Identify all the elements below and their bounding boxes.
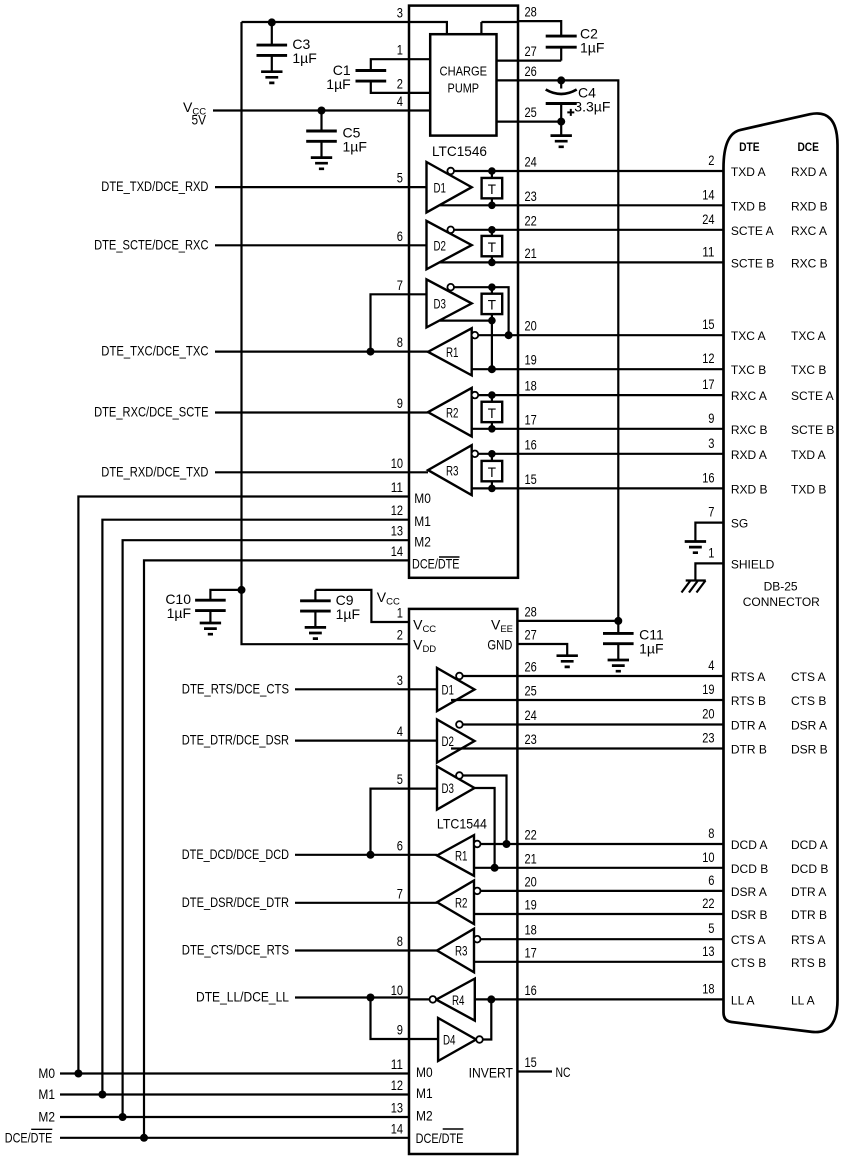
svg-text:RXC A: RXC A (791, 224, 827, 238)
receiver R1 U1 (428, 328, 472, 375)
svg-text:27: 27 (525, 43, 537, 59)
svg-text:M1: M1 (414, 513, 431, 529)
wire R2 output pin9 (409, 411, 428, 413)
svg-text:GND: GND (487, 637, 512, 653)
svg-text:TXD A: TXD A (731, 165, 766, 179)
wire pin25 to C4 minus (518, 120, 561, 122)
svg-text:DTR B: DTR B (731, 743, 767, 757)
wire D4 output to R4 input (483, 999, 492, 1039)
wire U2 R1 input pin21 (474, 867, 517, 869)
junction pin6/pin5 riser (367, 851, 375, 859)
svg-text:24: 24 (525, 154, 537, 170)
capacitor C10 1uF (210, 590, 241, 600)
wire U2 to DB25 row y=748.5 (517, 747, 723, 749)
svg-text:R3: R3 (446, 462, 459, 478)
wire pin26 internal (497, 79, 519, 81)
svg-text:25: 25 (525, 683, 537, 699)
termination T3 (482, 283, 503, 324)
wire SG pin7 (695, 523, 723, 541)
svg-text:5: 5 (397, 771, 403, 787)
wire U1 to DB25 row y=229.8 (518, 229, 724, 231)
wire U2 to DB25 row y=999.4 (517, 998, 723, 1000)
termination T4 (482, 391, 503, 432)
ground at SG (685, 542, 706, 553)
wire VEE rail pin26 to chip2 pin28 (518, 80, 618, 621)
svg-text:21: 21 (525, 850, 537, 866)
svg-text:14: 14 (702, 186, 714, 202)
wire D3 input pin7 internal (409, 293, 427, 295)
svg-text:13: 13 (391, 523, 403, 539)
svg-text:LTC1544: LTC1544 (437, 816, 487, 832)
svg-text:M0: M0 (416, 1064, 433, 1080)
driver D2 U2 (437, 720, 475, 763)
junction M2 (119, 1113, 127, 1121)
wire U2 R3 output pin8 (409, 949, 437, 951)
wire mode bus M2 (60, 540, 409, 1117)
svg-text:DTE: DTE (739, 140, 760, 154)
svg-text:7: 7 (708, 504, 714, 520)
svg-text:R1: R1 (446, 344, 459, 360)
wire U1 to DB25 row y=369.2 (518, 368, 724, 370)
svg-text:5: 5 (397, 170, 403, 186)
svg-text:1: 1 (397, 605, 403, 621)
receiver R2 U1 (428, 388, 472, 437)
wire R2 input pin17 (472, 428, 518, 430)
junction pin3/C3 (268, 18, 276, 26)
svg-text:1: 1 (397, 42, 403, 58)
svg-text:2: 2 (397, 627, 403, 643)
svg-text:DTE_RTS/DCE_CTS: DTE_RTS/DCE_CTS (182, 680, 289, 696)
wire VCC to U2 pin1 (315, 590, 409, 622)
svg-text:DTR A: DTR A (791, 885, 826, 899)
capacitor C3 1uF (257, 22, 317, 83)
svg-text:D2: D2 (434, 237, 447, 253)
svg-text:1µF: 1µF (580, 40, 604, 56)
svg-text:8: 8 (397, 933, 403, 949)
wire U1 to DB25 row y=171 (518, 170, 724, 172)
wire pin25 internal (497, 120, 519, 122)
wire U1 to DB25 row y=488.4 (518, 487, 724, 489)
termination T1 (482, 167, 503, 209)
svg-text:M2: M2 (38, 1109, 55, 1125)
svg-text:1µF: 1µF (639, 640, 663, 656)
svg-text:CTS B: CTS B (731, 956, 766, 970)
wire DTE_RXD/DCE_TXD (215, 471, 409, 473)
svg-text:D3: D3 (434, 296, 447, 312)
svg-text:9: 9 (708, 410, 714, 426)
svg-text:6: 6 (397, 837, 403, 853)
svg-text:RTS B: RTS B (791, 956, 826, 970)
svg-text:3.3µF: 3.3µF (574, 99, 610, 115)
svg-text:12: 12 (391, 1077, 403, 1093)
svg-text:15: 15 (702, 316, 714, 332)
wire U2 to DB25 row y=844 (517, 843, 723, 845)
wire D2 output pin21 (440, 261, 518, 263)
svg-text:7: 7 (397, 885, 403, 901)
svg-text:M1: M1 (416, 1085, 433, 1101)
svg-text:19: 19 (525, 897, 537, 913)
wire pin27 internal (497, 59, 519, 61)
wire D1 output pin23 (440, 204, 518, 206)
wire U2 R4 input pin16 (475, 998, 518, 1000)
ground at U2 GND (557, 656, 578, 667)
wire U2 to DB25 row y=867.8 (517, 867, 723, 869)
junction VCC/C5 (318, 107, 326, 115)
svg-text:R3: R3 (455, 943, 468, 959)
svg-text:21: 21 (525, 245, 537, 261)
wire U2 D3 output to pin22 row (463, 776, 507, 845)
svg-text:11: 11 (702, 243, 714, 259)
wire DTE_TXC/DCE_TXC pin8 (215, 351, 409, 353)
svg-text:8: 8 (397, 334, 403, 350)
svg-text:DTE_TXC/DCE_TXC: DTE_TXC/DCE_TXC (101, 343, 208, 359)
svg-text:20: 20 (702, 706, 714, 722)
svg-text:24: 24 (525, 707, 537, 723)
driver D1 U1 (427, 162, 472, 212)
svg-text:RTS A: RTS A (791, 933, 825, 947)
svg-text:RXD B: RXD B (791, 199, 828, 213)
wire pin2 internal (409, 92, 430, 94)
svg-text:16: 16 (525, 436, 537, 452)
termination T5 (482, 450, 503, 492)
capacitor C1 1uF (371, 59, 409, 70)
wire U2 to DB25 row y=939.2 (517, 938, 723, 940)
wire DTE_LL pin10 (295, 996, 409, 998)
svg-text:4: 4 (397, 723, 403, 739)
wire SHIELD pin1 (695, 563, 723, 580)
svg-text:INVERT: INVERT (469, 1065, 514, 1081)
wire U2 R2 input pin19 (474, 913, 517, 915)
svg-text:22: 22 (525, 212, 537, 228)
wire U1 to DB25 row y=453.8 (518, 453, 724, 455)
wire mode bus DCE/DTE (60, 560, 409, 1137)
svg-text:CTS B: CTS B (791, 694, 826, 708)
capacitor C5 1uF (306, 111, 367, 169)
wire pin28 to charge pump internal (481, 21, 518, 23)
svg-text:TXC B: TXC B (791, 363, 826, 377)
junction VDD/C10 (238, 586, 246, 594)
wire R3 input pin16 (478, 453, 518, 455)
wire R1 input pin19 (472, 368, 518, 370)
wire DTE_RTS/DCE_CTS (295, 688, 409, 690)
wire U2 D2 output pin23 (451, 747, 517, 749)
svg-text:T: T (488, 240, 496, 255)
svg-text:13: 13 (702, 943, 714, 959)
wire mode bus M1 (60, 520, 409, 1095)
svg-text:3: 3 (708, 435, 714, 451)
svg-text:TXD B: TXD B (731, 199, 766, 213)
wire U2 R1 input pin22 (480, 843, 517, 845)
wire T3 to pin19 row (491, 321, 493, 370)
junction D3/R1 pin20 (505, 331, 513, 339)
svg-text:1µF: 1µF (343, 139, 367, 155)
svg-text:DTE_LL/DCE_LL: DTE_LL/DCE_LL (196, 989, 289, 1005)
svg-text:LTC1546: LTC1546 (432, 143, 487, 159)
driver D3 U2 (437, 767, 475, 810)
svg-text:DTE_RXC/DCE_SCTE: DTE_RXC/DCE_SCTE (94, 404, 208, 420)
svg-text:LL A: LL A (791, 993, 815, 1007)
svg-text:10: 10 (391, 455, 403, 471)
svg-text:6: 6 (708, 872, 714, 888)
wire DTE_CTS/DCE_RTS (295, 949, 409, 951)
IC U2 LTC1544 outline (409, 609, 517, 1154)
svg-text:10: 10 (702, 849, 714, 865)
wire U2 R1 output pin6 (409, 854, 437, 856)
svg-text:10: 10 (391, 982, 403, 998)
svg-text:DSR A: DSR A (731, 885, 767, 899)
svg-text:DTE_DSR/DCE_DTR: DTE_DSR/DCE_DTR (182, 894, 289, 910)
svg-text:DTR A: DTR A (731, 719, 766, 733)
junction R4/D4 (487, 995, 495, 1003)
svg-text:3: 3 (397, 5, 403, 21)
svg-text:11: 11 (391, 1056, 403, 1072)
svg-text:D2: D2 (442, 733, 455, 749)
svg-text:DSR B: DSR B (731, 908, 768, 922)
wire U2 R2 input pin20 (480, 890, 517, 892)
svg-text:DTE_SCTE/DCE_RXC: DTE_SCTE/DCE_RXC (94, 236, 208, 252)
wire U2 D4 input pin9 (409, 1038, 438, 1040)
wire mode bus M0 (60, 497, 409, 1074)
svg-text:8: 8 (708, 825, 714, 841)
svg-text:CHARGE: CHARGE (440, 64, 488, 78)
svg-text:DCE/DTE: DCE/DTE (412, 556, 460, 572)
ground at C4 (551, 136, 572, 147)
wire U2 D1 input pin3 (409, 688, 437, 690)
svg-text:20: 20 (525, 873, 537, 889)
wire U2 D3 input pin5 (409, 787, 437, 789)
wire D2 output pin22 (454, 229, 518, 231)
wire R1 input pin20 (478, 334, 518, 336)
receiver R1 U2 (437, 835, 474, 876)
svg-text:M0: M0 (38, 1065, 55, 1081)
svg-text:D1: D1 (434, 179, 447, 195)
wire R3 output pin10 (409, 471, 428, 473)
capacitor C4 3.3uF polarized (560, 80, 562, 88)
svg-text:RXC B: RXC B (791, 256, 828, 270)
svg-text:M0: M0 (414, 490, 431, 506)
svg-text:12: 12 (391, 502, 403, 518)
svg-text:25: 25 (525, 104, 537, 120)
svg-text:DTE_DTR/DCE_DSR: DTE_DTR/DCE_DSR (182, 732, 289, 748)
svg-text:19: 19 (702, 681, 714, 697)
junction pin8/pin7 riser (367, 348, 375, 356)
wire DTE_SCTE/DCE_RXC (215, 244, 409, 246)
svg-text:14: 14 (391, 543, 403, 559)
svg-text:DTE_DCD/DCE_DCD: DTE_DCD/DCE_DCD (182, 846, 289, 862)
svg-text:3: 3 (397, 672, 403, 688)
svg-text:D3: D3 (442, 780, 455, 796)
svg-text:1µF: 1µF (292, 50, 316, 66)
svg-text:1µF: 1µF (167, 605, 191, 621)
svg-text:17: 17 (702, 376, 714, 392)
svg-text:NC: NC (556, 1064, 571, 1080)
svg-text:20: 20 (525, 318, 537, 334)
svg-text:26: 26 (525, 659, 537, 675)
wire U1 to DB25 row y=335.2 (518, 334, 724, 336)
wire U2 pin27 GND (517, 644, 567, 655)
DB-25 connector outline (724, 113, 838, 1032)
wire U2 D1 output pin26 (463, 675, 518, 677)
svg-text:22: 22 (525, 827, 537, 843)
svg-text:18: 18 (702, 980, 714, 996)
wire D1 input pin5 internal (409, 186, 427, 188)
wire VDD rail vertical (242, 22, 410, 644)
wire U1 to DB25 row y=395.1 (518, 394, 724, 396)
svg-text:CTS A: CTS A (731, 933, 766, 947)
junction pin25/C4 (557, 118, 565, 126)
junction M1 (98, 1091, 106, 1099)
svg-text:9: 9 (397, 1022, 403, 1038)
svg-text:28: 28 (525, 603, 537, 619)
wire pin1 internal (409, 58, 430, 60)
svg-text:CTS A: CTS A (791, 670, 826, 684)
svg-text:DCD A: DCD A (731, 838, 768, 852)
wire DTE_DSR/DCE_DTR (295, 902, 409, 904)
junction VEE/C11 (614, 617, 622, 625)
svg-text:1µF: 1µF (326, 76, 350, 92)
capacitor C9 1uF (300, 590, 360, 639)
svg-text:D4: D4 (443, 1032, 456, 1048)
svg-text:22: 22 (702, 895, 714, 911)
wire D3 output to T3 (440, 320, 492, 322)
wire U2 to DB25 row y=914 (517, 913, 723, 915)
svg-text:DCE: DCE (797, 140, 819, 154)
svg-text:R1: R1 (455, 848, 468, 864)
wire U1 to DB25 row y=262.4 (518, 261, 724, 263)
wire U1 to DB25 row y=205.3 (518, 204, 724, 206)
wire pin3 net (242, 21, 410, 23)
svg-text:17: 17 (525, 411, 537, 427)
wire VCC to pin4 (213, 109, 409, 111)
svg-text:RTS B: RTS B (731, 694, 766, 708)
svg-text:DSR B: DSR B (791, 743, 828, 757)
wire U2 D2 input pin4 (409, 739, 437, 741)
svg-text:TXC A: TXC A (731, 329, 766, 343)
svg-text:SCTE B: SCTE B (791, 423, 834, 437)
svg-text:R4: R4 (452, 992, 465, 1008)
junction DCE/DTE (140, 1134, 148, 1142)
svg-text:T: T (488, 465, 496, 480)
wire D1 output pin24 (454, 170, 518, 172)
junction M0 (74, 1070, 82, 1078)
svg-text:18: 18 (525, 378, 537, 394)
wire U2 R3 input pin18 (480, 938, 517, 940)
svg-text:28: 28 (525, 4, 537, 20)
wire pin3 to charge pump internal (409, 22, 447, 34)
junction pin10/pin9 riser (367, 994, 375, 1002)
capacitor C2 1uF (518, 21, 561, 36)
svg-text:T: T (488, 298, 496, 313)
svg-text:5: 5 (708, 920, 714, 936)
svg-text:11: 11 (391, 479, 403, 495)
svg-text:16: 16 (525, 982, 537, 998)
wire R3 input pin15 (472, 487, 518, 489)
driver D4 U2 (438, 1018, 476, 1061)
wire DTE_TXD/DCE_RXD (215, 186, 409, 188)
svg-text:DCD B: DCD B (791, 862, 828, 876)
svg-text:LL A: LL A (731, 993, 755, 1007)
svg-text:23: 23 (702, 730, 714, 746)
svg-text:CONNECTOR: CONNECTOR (743, 595, 820, 609)
wire U1 to DB25 row y=428.8 (518, 428, 724, 430)
wire pin15 NC stub (517, 1070, 552, 1072)
svg-text:RXC B: RXC B (731, 423, 768, 437)
termination T2 (482, 226, 503, 266)
driver D2 U1 (427, 221, 472, 269)
wire U2 to DB25 row y=890.9 (517, 890, 723, 892)
wire U2 R2 output pin7 (409, 902, 437, 904)
svg-text:SCTE A: SCTE A (791, 389, 834, 403)
wire U2 R4 output pin10 (409, 998, 430, 1000)
svg-text:4: 4 (708, 657, 714, 673)
wire DTE_DTR/DCE_DSR (295, 739, 409, 741)
wire U2 pin28 VEE (517, 620, 618, 622)
svg-text:RXD A: RXD A (791, 165, 827, 179)
svg-text:M1: M1 (38, 1086, 55, 1102)
wire riser to pin7 (371, 294, 410, 351)
svg-text:DSR A: DSR A (791, 719, 827, 733)
svg-text:23: 23 (525, 188, 537, 204)
svg-text:T: T (488, 406, 496, 421)
svg-text:DCD B: DCD B (731, 862, 768, 876)
driver D3 U1 (427, 279, 472, 327)
svg-text:RTS A: RTS A (731, 670, 765, 684)
svg-text:7: 7 (397, 277, 403, 293)
wire R1 output pin8 (409, 351, 428, 353)
svg-text:26: 26 (525, 63, 537, 79)
svg-text:19: 19 (525, 352, 537, 368)
svg-text:4: 4 (397, 93, 403, 109)
receiver R2 U2 (437, 881, 474, 925)
svg-text:TXD A: TXD A (791, 448, 826, 462)
svg-text:2: 2 (708, 152, 714, 168)
svg-text:RXD B: RXD B (731, 482, 768, 496)
wire pin4 internal (409, 109, 430, 111)
svg-text:27: 27 (525, 627, 537, 643)
chassis ground at SHIELD (682, 581, 706, 593)
svg-text:T: T (488, 182, 496, 197)
receiver R3 U2 (437, 929, 474, 973)
receiver R3 U1 (428, 445, 472, 495)
IC U1 LTC1546 outline (409, 6, 518, 578)
svg-text:2: 2 (397, 75, 403, 91)
svg-text:M2: M2 (416, 1108, 433, 1124)
svg-text:24: 24 (702, 211, 714, 227)
svg-text:R2: R2 (455, 894, 468, 910)
svg-text:SCTE B: SCTE B (731, 256, 774, 270)
wire U2 R3 input pin17 (474, 961, 517, 963)
capacitor C11 1uF (603, 621, 664, 671)
svg-text:DTE_TXD/DCE_RXD: DTE_TXD/DCE_RXD (101, 178, 208, 194)
junction D3/R1 pin22 U2 (503, 840, 511, 848)
wire U2 to DB25 row y=700 (517, 699, 723, 701)
svg-text:15: 15 (525, 471, 537, 487)
wire riser to pin5 (371, 789, 410, 855)
wire U2 to DB25 row y=724.5 (517, 723, 723, 725)
wire DTE_DCD pin6 (295, 854, 409, 856)
receiver R4 U2 (436, 979, 475, 1021)
svg-text:1µF: 1µF (336, 606, 360, 622)
svg-text:DTR B: DTR B (791, 908, 827, 922)
wire DTE_RXC/DCE_SCTE (215, 411, 409, 413)
svg-text:5V: 5V (192, 112, 207, 128)
svg-text:SG: SG (731, 517, 748, 531)
svg-text:R2: R2 (446, 404, 459, 420)
svg-text:16: 16 (702, 469, 714, 485)
svg-text:SCTE A: SCTE A (731, 224, 774, 238)
svg-text:RXC A: RXC A (731, 389, 767, 403)
svg-text:PUMP: PUMP (448, 81, 480, 95)
